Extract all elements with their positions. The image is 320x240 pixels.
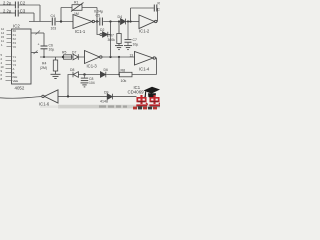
capacitor C5 xyxy=(100,18,103,26)
capacitor C3 xyxy=(15,10,18,17)
wire IC1-6 in xyxy=(58,95,80,97)
svg-text:C3: C3 xyxy=(20,8,26,13)
bottom smudge text xyxy=(99,105,127,107)
wire osc input xyxy=(29,21,52,23)
svg-text:C2: C2 xyxy=(20,0,26,5)
svg-text:R9: R9 xyxy=(158,2,161,6)
svg-text:(2M): (2M) xyxy=(40,66,47,70)
svg-text:4148: 4148 xyxy=(100,100,108,104)
capacitor C6 xyxy=(41,46,48,49)
capacitor C4 xyxy=(52,18,55,26)
IC U2 body xyxy=(12,29,32,84)
wire feedback left xyxy=(60,8,62,22)
svg-text:D8: D8 xyxy=(70,68,74,72)
svg-text:2.2µ: 2.2µ xyxy=(3,0,12,5)
svg-text:Y0: Y0 xyxy=(13,45,17,49)
wire feedback top xyxy=(61,7,97,9)
pin 3 arrow xyxy=(34,51,38,55)
junction xyxy=(127,20,129,22)
inverter IC1-3 xyxy=(85,51,103,64)
resistor R5 xyxy=(64,55,72,59)
wire bottom-right rail xyxy=(132,74,157,76)
label C10 104 xyxy=(89,77,95,85)
watermark small text xyxy=(133,107,157,110)
wire feedback right xyxy=(96,8,98,22)
svg-text:104: 104 xyxy=(89,81,95,85)
svg-text:13: 13 xyxy=(130,53,134,57)
IC2 pin X out wire xyxy=(31,32,44,34)
watermark cap logo xyxy=(144,87,161,98)
svg-text:103: 103 xyxy=(51,26,57,30)
watermark char shadows xyxy=(137,102,160,106)
pin 13 arrow xyxy=(36,31,41,35)
IC2 left pins xyxy=(6,31,12,81)
svg-text:10k: 10k xyxy=(121,79,127,83)
wire drop from line1 xyxy=(39,5,41,22)
svg-text:IC1-3: IC1-3 xyxy=(87,64,98,69)
svg-text:C4: C4 xyxy=(51,14,55,18)
diode D7 xyxy=(73,54,78,60)
inverter IC1-4 xyxy=(135,52,156,66)
svg-text:300k: 300k xyxy=(108,38,116,42)
wire drop from line2 xyxy=(33,13,35,22)
junction xyxy=(109,56,111,58)
wire D8 corner down xyxy=(68,75,73,97)
inverter IC1-6 xyxy=(42,90,58,103)
junction xyxy=(118,56,120,58)
inverter IC1-2 xyxy=(139,15,157,29)
bottom scan band xyxy=(58,105,160,109)
svg-text:C5: C5 xyxy=(96,14,101,18)
svg-text:CD4069: CD4069 xyxy=(128,90,145,95)
wire branch x110 xyxy=(110,22,112,58)
svg-text:R1: R1 xyxy=(74,1,78,5)
svg-text:D6: D6 xyxy=(104,68,108,72)
wire IC1-2 feedback top xyxy=(131,8,154,22)
resistor R7 xyxy=(117,22,121,46)
svg-text:IC2: IC2 xyxy=(13,24,20,29)
svg-text:IC1-1: IC1-1 xyxy=(75,29,86,34)
svg-text:10µ: 10µ xyxy=(133,42,139,46)
svg-text:VEE: VEE xyxy=(13,79,19,83)
wire after D4 xyxy=(126,21,139,23)
wire input line 2 xyxy=(0,12,34,14)
wire after C5 xyxy=(103,21,120,23)
label R1 1M xyxy=(74,1,79,16)
ground xyxy=(124,46,132,50)
label C6 xyxy=(38,43,55,52)
wire rail mid xyxy=(79,74,120,76)
ground xyxy=(51,74,61,78)
svg-text:4052: 4052 xyxy=(15,86,25,91)
wire X down xyxy=(43,33,45,46)
svg-text:+: + xyxy=(38,43,40,47)
label C5 0.04u xyxy=(94,10,103,18)
svg-text:D9: D9 xyxy=(104,90,108,94)
svg-text:D4: D4 xyxy=(118,15,123,19)
capacitor C8 xyxy=(154,5,157,12)
junction xyxy=(118,74,120,76)
wire bottom rail left xyxy=(40,56,85,58)
diode D2 xyxy=(100,32,111,37)
capacitor C7 xyxy=(125,22,132,46)
wire input line 1 xyxy=(0,4,40,6)
wire D2 branch xyxy=(97,22,100,35)
wire IC1-2 feedback right xyxy=(156,8,159,22)
diode D9 xyxy=(107,94,112,100)
wire to IC1-1 xyxy=(56,21,73,23)
IC2 pin Y out wire xyxy=(31,52,38,54)
diode D4 xyxy=(121,19,126,25)
resistor R4 xyxy=(53,57,57,74)
wire C6 down xyxy=(43,49,45,57)
capacitor C2 xyxy=(15,2,18,9)
wire IC1-1 out xyxy=(95,21,100,23)
junction xyxy=(43,56,45,58)
watermark char chong1 xyxy=(136,95,148,105)
svg-text:R5: R5 xyxy=(62,51,66,55)
resistor R8 xyxy=(119,72,132,77)
svg-text:C8: C8 xyxy=(158,8,161,12)
junction xyxy=(60,20,62,22)
resistor R1 xyxy=(71,3,84,12)
junction xyxy=(62,56,64,58)
ground xyxy=(81,83,89,87)
label C4 103 xyxy=(51,14,57,30)
wire IC1-4 out down xyxy=(156,58,157,75)
wire output left xyxy=(0,97,41,99)
IC2 pin name labels xyxy=(13,29,19,83)
diode D6 xyxy=(100,72,105,78)
capacitor C10 xyxy=(81,75,88,81)
label R4 2M xyxy=(40,62,47,70)
label R7 300k xyxy=(108,34,116,42)
junction xyxy=(96,20,98,22)
label 2.2u C2 xyxy=(3,0,26,5)
junction xyxy=(118,20,120,22)
wire R8 to input xyxy=(118,57,120,75)
label 2.2u C3 xyxy=(3,8,26,13)
ground xyxy=(115,46,123,50)
junction xyxy=(129,20,131,22)
junction xyxy=(67,95,69,97)
label R8 10k xyxy=(121,68,127,82)
inverter IC1-1 xyxy=(73,15,95,29)
IC2 pin number labels xyxy=(1,27,5,81)
svg-text:IC1-2: IC1-2 xyxy=(139,29,150,34)
svg-text:D7: D7 xyxy=(72,51,76,55)
label C7 xyxy=(133,38,139,46)
diode D8 xyxy=(73,72,78,78)
svg-text:2.2µ: 2.2µ xyxy=(3,8,12,13)
svg-text:D2: D2 xyxy=(100,28,104,32)
wire bottom to right xyxy=(80,96,137,98)
junction xyxy=(109,20,111,22)
wire IC1-3 out xyxy=(102,56,135,58)
watermark char chong2 xyxy=(149,95,160,105)
svg-text:IC1-4: IC1-4 xyxy=(139,66,150,71)
svg-text:R8: R8 xyxy=(121,68,126,72)
junction xyxy=(83,73,85,75)
svg-text:10µ: 10µ xyxy=(49,48,55,52)
